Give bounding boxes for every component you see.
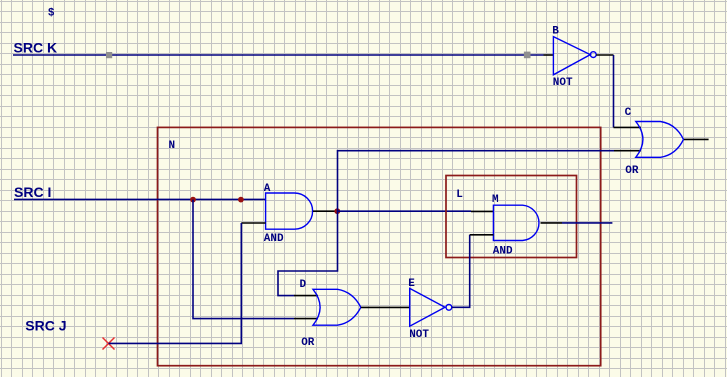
wire SRC J to AND A bottom input <box>109 223 242 343</box>
no-connect X marker <box>103 338 115 350</box>
pin stub OR D input bottom <box>294 318 318 320</box>
wire junction1 down to OR D bottom input <box>193 200 294 319</box>
wire SRC I horizontal <box>14 198 266 200</box>
inverter U:E (NOT gate E) <box>410 288 452 326</box>
pin stub AND A input bottom <box>241 222 265 224</box>
wire NOT E output up to AND M bottom input <box>452 235 470 307</box>
svg-text:SRC J: SRC J <box>25 317 66 333</box>
or-gate U:D <box>313 289 361 325</box>
svg-text:AND: AND <box>493 245 513 257</box>
inverter U:B (NOT gate B) <box>553 37 596 75</box>
svg-text:NOT: NOT <box>409 329 429 341</box>
junction dot 1 on SRC I <box>190 197 196 203</box>
pin stub AND M input bottom <box>470 234 494 236</box>
wire AND M output <box>562 222 612 224</box>
wire OR D output to NOT E input <box>361 306 410 308</box>
pin stub AND M input top <box>471 210 493 212</box>
wire OR C output <box>684 138 709 140</box>
svg-text:E: E <box>408 278 415 290</box>
pin stub NOT B input <box>544 54 555 56</box>
or-gate U:C <box>636 122 684 158</box>
and-gate U:M <box>493 205 539 240</box>
svg-text:N: N <box>169 140 176 152</box>
bus marker square 2 <box>524 52 531 59</box>
block border L <box>446 176 577 258</box>
block border N <box>158 127 601 365</box>
svg-text:NOT: NOT <box>553 77 573 89</box>
pin stub OR C input bottom <box>614 150 641 152</box>
bus marker square 1 <box>106 52 112 58</box>
pin stub OR C input top <box>614 126 642 128</box>
wire AND M output stub <box>541 222 563 224</box>
wire node up to OR C bottom feed <box>338 151 615 212</box>
pin stub OR D input top <box>294 295 318 297</box>
svg-text:L: L <box>456 189 463 201</box>
wire NOT B output to corner <box>596 54 613 56</box>
svg-text:OR: OR <box>301 337 315 349</box>
and-gate U:A <box>266 193 313 229</box>
wire node to AND M top input <box>338 210 472 212</box>
svg-text:M: M <box>492 194 499 206</box>
wire vertical down to OR C top input <box>613 55 615 127</box>
svg-text:SRC K: SRC K <box>14 39 58 55</box>
wire node down to OR D top input <box>278 211 338 295</box>
svg-text:B: B <box>552 26 559 38</box>
svg-text:D: D <box>300 279 307 291</box>
svg-text:C: C <box>625 107 632 119</box>
svg-text:SRC I: SRC I <box>14 184 51 200</box>
junction dot 2 on SRC I <box>238 197 244 203</box>
svg-text:AND: AND <box>264 233 284 245</box>
wire SRC K horizontal <box>13 54 544 56</box>
junction dot at AND A output node <box>334 208 340 214</box>
svg-text:$: $ <box>48 8 55 20</box>
svg-text:OR: OR <box>625 165 639 177</box>
wire AND A output <box>313 210 338 212</box>
svg-text:A: A <box>264 183 271 195</box>
